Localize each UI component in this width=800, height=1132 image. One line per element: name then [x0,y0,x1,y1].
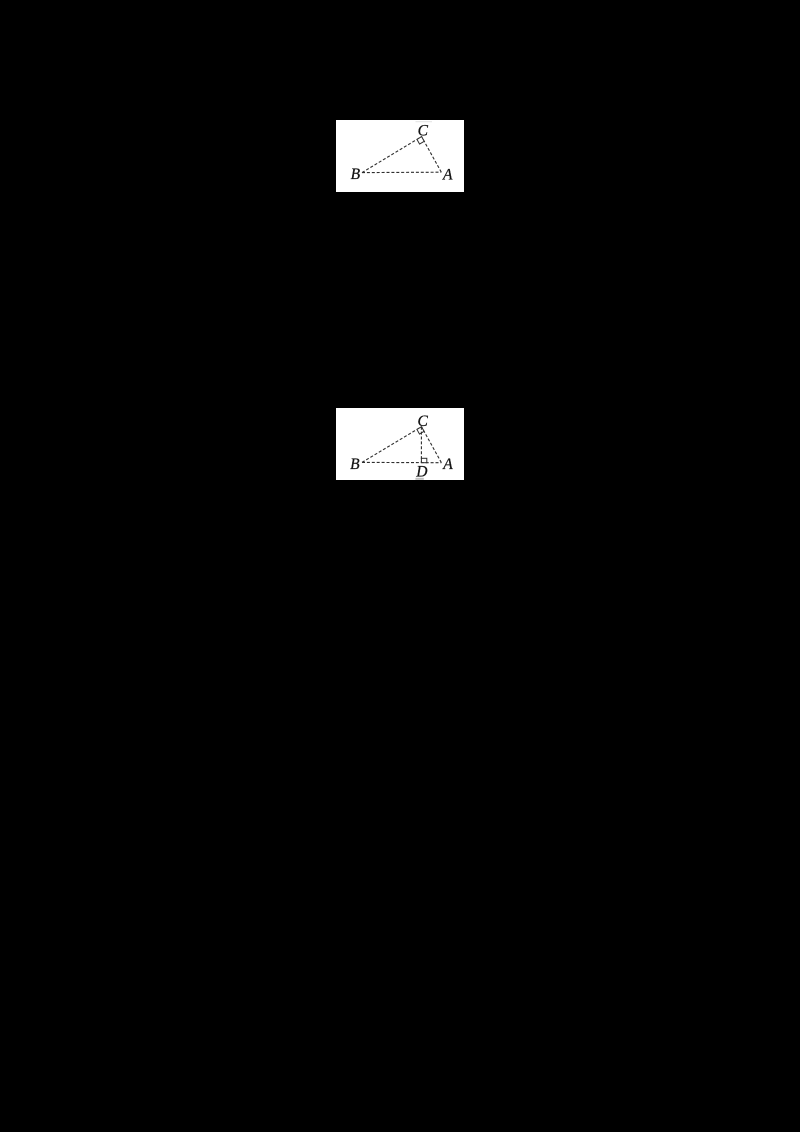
svg-text:D: D [415,463,427,480]
svg-text:A: A [442,166,453,183]
svg-text:B: B [350,456,360,473]
svg-text:C: C [418,122,429,139]
svg-text:A: A [442,456,453,473]
svg-text:C: C [418,413,429,430]
svg-text:B: B [351,166,361,183]
